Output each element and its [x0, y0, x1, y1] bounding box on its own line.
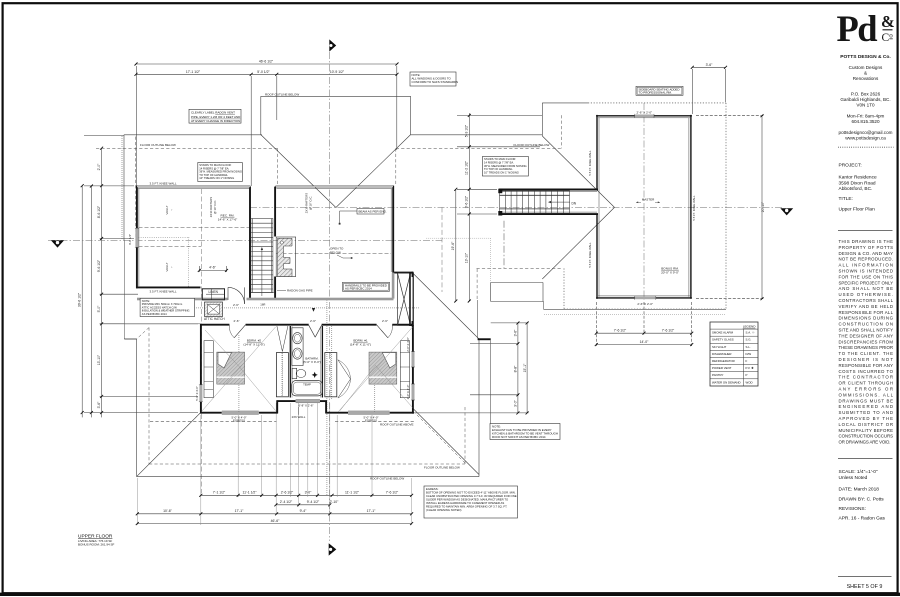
svg-text:D/W: D/W — [746, 352, 752, 356]
svg-text:(14'-8" X 11'-0"): (14'-8" X 11'-0") — [243, 343, 264, 347]
svg-text:S.G.: S.G. — [746, 338, 752, 342]
svg-text:EGRESS: EGRESS — [365, 419, 377, 423]
svg-text:3598 Dixon Road: 3598 Dixon Road — [839, 180, 876, 186]
bathroom door V — [309, 325, 316, 337]
svg-text:2'-0" X 4'-0": 2'-0" X 4'-0" — [406, 385, 410, 400]
svg-text:RESPONSIBLE FOR ALL: RESPONSIBLE FOR ALL — [839, 310, 894, 315]
svg-text:REFRIGERATOR: REFRIGERATOR — [712, 359, 735, 363]
pillow — [218, 353, 232, 368]
connector stair rails — [500, 194, 570, 196]
roof funnel valley diagonals — [261, 135, 336, 208]
hall south wall west extension — [125, 323, 201, 325]
svg-text:14'-6" X 17'-6": 14'-6" X 17'-6" — [218, 218, 238, 222]
svg-text:20'-10": 20'-10" — [761, 201, 765, 212]
bathtub — [292, 381, 323, 396]
svg-text:CONTRACTORS SHALL: CONTRACTORS SHALL — [839, 298, 894, 303]
dotted separator — [838, 146, 894, 148]
svg-text:DISHWASHER: DISHWASHER — [712, 352, 732, 356]
svg-text:3.5 FT. KNEE WALL: 3.5 FT. KNEE WALL — [150, 290, 177, 294]
bath bay east wall — [325, 401, 327, 414]
svg-text:SAFETY GLASS: SAFETY GLASS — [712, 338, 734, 342]
svg-text:THIS DRAWING IS THE: THIS DRAWING IS THE — [839, 239, 894, 244]
svg-text:CONSTRUCTION OCCURS: CONSTRUCTION OCCURS — [839, 434, 894, 439]
bifold doors — [277, 326, 283, 352]
svg-text:17'-1": 17'-1" — [367, 509, 376, 513]
svg-text:9'-6 1/2": 9'-6 1/2" — [97, 259, 101, 272]
wing vertical centerline — [643, 103, 645, 300]
bedroom2 left wall upper — [200, 324, 202, 385]
left dim ticks — [81, 147, 103, 414]
svg-text:16R: 16R — [260, 303, 265, 307]
hall door from rec room wall — [227, 287, 229, 300]
svg-text:Kantor Residence: Kantor Residence — [839, 175, 877, 181]
svg-text:WOD: WOD — [746, 380, 753, 384]
wall inner faces (thin parallel lines) — [138, 118, 690, 297]
svg-text:PANTRY: PANTRY — [712, 373, 724, 377]
svg-text:Abbotsford, BC.: Abbotsford, BC. — [839, 186, 873, 192]
DN arrow — [549, 201, 570, 203]
section marker bottom — [329, 543, 337, 555]
note box: beam as per eng — [339, 208, 387, 224]
attic hatch — [205, 302, 223, 317]
rec room bottom wall — [136, 286, 201, 288]
svg-text:SKYLIGHT: SKYLIGHT — [712, 345, 727, 349]
svg-text:DESIGNER IS NOT: DESIGNER IS NOT — [839, 357, 894, 362]
svg-text:5'-0" X 4'-0": 5'-0" X 4'-0" — [195, 386, 199, 401]
svg-text:5.5 FT. KNEE WALL: 5.5 FT. KNEE WALL — [692, 195, 696, 221]
wing valley diagonals — [542, 136, 614, 207]
bedroom1 south window — [348, 411, 390, 414]
svg-text:TEMP: TEMP — [303, 383, 311, 387]
bedroom1 closet — [325, 353, 351, 398]
svg-text:3'-6": 3'-6" — [97, 401, 101, 409]
wing north window — [635, 115, 654, 118]
rec room interior dim 4'-6" — [199, 269, 226, 271]
svg-text:FOR THE USE ON THIS: FOR THE USE ON THIS — [839, 274, 894, 279]
svg-text:FLOOR OUTLINE BELOW: FLOOR OUTLINE BELOW — [424, 466, 460, 470]
svg-text:10'-9 1/2": 10'-9 1/2" — [330, 70, 345, 74]
svg-text:20'-0" X 9'-0": 20'-0" X 9'-0" — [661, 271, 679, 275]
wing south window — [635, 297, 656, 300]
svg-text:3.5 FT. KNEE WALL: 3.5 FT. KNEE WALL — [150, 182, 177, 186]
svg-text:@ 16" O.C.: @ 16" O.C. — [309, 196, 313, 210]
svg-text:AND SHALL NOT BE: AND SHALL NOT BE — [839, 286, 894, 291]
top dim ticks — [135, 63, 399, 76]
roof outline below: top funnel — [261, 95, 411, 97]
wing bottom dim rows — [596, 332, 692, 334]
bath bottom wall west — [277, 400, 296, 402]
wing top dim 3'-6" — [692, 66, 725, 68]
vanity counter — [292, 328, 303, 366]
svg-text:ROOF OUTLINE ABOVE: ROOF OUTLINE ABOVE — [380, 423, 414, 427]
svg-text:←: ← — [170, 266, 174, 269]
connector roof outline dotted — [544, 314, 726, 316]
section line jog at garage — [503, 221, 505, 268]
svg-text:Custom Designs: Custom Designs — [849, 65, 883, 70]
svg-text:CONFORM TO NAFS STANDARDS: CONFORM TO NAFS STANDARDS — [412, 80, 459, 84]
bottom dim row A — [201, 494, 412, 496]
stairwell left wall — [249, 187, 251, 300]
left dim line inner — [101, 148, 103, 417]
svg-text:RADON GAS PIPE: RADON GAS PIPE — [287, 288, 313, 292]
bedroom1 east windows — [412, 352, 415, 367]
bedroom1 bottom wall east — [390, 412, 414, 414]
svg-text:SCALE: 1/4"=1'-0": SCALE: 1/4"=1'-0" — [839, 469, 878, 475]
svg-text:AS PER BCBC 2014: AS PER BCBC 2014 — [142, 312, 167, 316]
section line jog — [441, 207, 443, 292]
svg-text:ATTIC HATCH: ATTIC HATCH — [204, 317, 225, 321]
svg-text:SMOKE ALARM: SMOKE ALARM — [712, 331, 734, 335]
svg-text:14'-0": 14'-0" — [640, 340, 649, 344]
svg-text:8'-6 1/2": 8'-6 1/2" — [97, 205, 101, 218]
svg-text:PROPERTY OF POTTS: PROPERTY OF POTTS — [839, 245, 894, 250]
svg-text:VAULT: VAULT — [165, 205, 169, 214]
svg-text:TO THE CLIENT. THE: TO THE CLIENT. THE — [839, 351, 894, 356]
svg-text:USED OTHERWISE.: USED OTHERWISE. — [839, 292, 894, 297]
svg-text:3'-6 1/2": 3'-6 1/2" — [465, 195, 469, 208]
jog wall to window bay — [393, 272, 413, 274]
wing right dim 20'-10" — [761, 116, 763, 299]
bottom dim row D overall 46'-6" — [137, 523, 411, 525]
svg-text:ROOF OUTLINE BELOW: ROOF OUTLINE BELOW — [370, 477, 404, 481]
svg-text:pottsdesignco@gmail.com: pottsdesignco@gmail.com — [839, 130, 893, 135]
svg-text:11'-1 1/2": 11'-1 1/2" — [242, 491, 257, 495]
note box: windows/doors NAFS — [410, 72, 458, 86]
roof outline below: top edge — [124, 134, 262, 136]
bottom dim row B — [276, 504, 330, 506]
svg-text:WATER ON DEMAND: WATER ON DEMAND — [712, 380, 741, 384]
svg-text:Upper Floor Plan: Upper Floor Plan — [839, 207, 876, 213]
svg-text:CONSTRUCTION ON: CONSTRUCTION ON — [839, 322, 894, 327]
sheet bottom thick border — [0, 593, 900, 596]
svg-text:P: P — [746, 373, 748, 377]
svg-text:DRAWINGS MUST BE: DRAWINGS MUST BE — [839, 398, 894, 403]
svg-text:LEGEND: LEGEND — [743, 324, 756, 328]
connector roof edge horizontal — [544, 308, 727, 310]
svg-text:TO PROFESSIONAL RM.: TO PROFESSIONAL RM. — [639, 91, 672, 95]
right-of-house dim stack — [517, 323, 519, 413]
right room top wall — [276, 186, 395, 188]
rec room door + arc — [228, 287, 245, 304]
bedroom2 west window — [199, 385, 202, 402]
svg-text:TITLE:: TITLE: — [839, 196, 853, 202]
svg-text:5'-3 1/2": 5'-3 1/2" — [465, 124, 469, 137]
pillow — [382, 353, 396, 368]
hall south wall segments (bedroom top wall) — [201, 324, 230, 326]
garage wall stub — [478, 338, 491, 340]
bedroom1 right wall segments — [412, 325, 414, 352]
rec room top wall — [136, 186, 250, 188]
svg-text:COSTS INCURRED TO: COSTS INCURRED TO — [839, 369, 894, 374]
svg-text:2'-6": 2'-6" — [382, 319, 388, 323]
svg-text:SHOWN IS INTENDED: SHOWN IS INTENDED — [839, 269, 894, 274]
section marker top — [329, 39, 336, 51]
svg-text:OR CLIENT THROUGH: OR CLIENT THROUGH — [839, 381, 894, 386]
garage wall below west — [477, 300, 479, 338]
rec room west window — [135, 228, 138, 247]
roof outline below: bottom edge — [137, 476, 479, 478]
svg-text:LOCAL DISTRICT OR: LOCAL DISTRICT OR — [839, 422, 894, 427]
note box: egress — [424, 486, 518, 518]
rec room left wall lower — [136, 247, 138, 288]
svg-text:11'-2 1/2": 11'-2 1/2" — [465, 160, 469, 175]
svg-text:S.A. ☉: S.A. ☉ — [746, 331, 755, 335]
svg-text:6'-8" X 2'-6": 6'-8" X 2'-6" — [298, 403, 313, 407]
radon pipe dotted runs — [122, 136, 420, 495]
svg-text:SITE AND SHALL NOTIFY: SITE AND SHALL NOTIFY — [839, 328, 894, 333]
wing walls — [596, 115, 692, 299]
svg-text:17'-1": 17'-1" — [235, 509, 244, 513]
svg-text:15'-1": 15'-1" — [523, 363, 527, 372]
svg-text:F: F — [746, 359, 748, 363]
svg-text:5.5 FT. KNEE WALL: 5.5 FT. KNEE WALL — [588, 150, 592, 176]
sheet number separator — [838, 575, 892, 577]
svg-text:PROJECT:: PROJECT: — [839, 163, 862, 169]
open-to-below guard knee wall (grey) — [137, 298, 228, 301]
svg-text:604.815.3520: 604.815.3520 — [851, 119, 880, 124]
svg-text:APPROVED BY THE: APPROVED BY THE — [839, 416, 894, 421]
svg-text:P.V. ✚: P.V. ✚ — [746, 366, 755, 370]
svg-text:THESE DRAWINGS PRIOR: THESE DRAWINGS PRIOR — [839, 345, 894, 350]
bedroom2 bottom wall east — [259, 412, 278, 414]
horizontal section line right — [250, 206, 782, 208]
svg-text:13'-10": 13'-10" — [97, 354, 101, 365]
roof outline below: left edge upper — [123, 135, 125, 241]
svg-text:www.pottsdesign.ca: www.pottsdesign.ca — [845, 135, 886, 140]
svg-text:APR. 16 - Radon Gas: APR. 16 - Radon Gas — [839, 515, 886, 521]
svg-text:RESPONSIBLE FOR ANY: RESPONSIBLE FOR ANY — [839, 363, 894, 368]
svg-text:P.O. Box 2626: P.O. Box 2626 — [851, 92, 881, 97]
svg-text:LINEN: LINEN — [209, 290, 219, 294]
svg-text:ROOF NOT SOFFIT AS PER BCBC 20: ROOF NOT SOFFIT AS PER BCBC 2014 — [492, 435, 546, 439]
window sill lines — [135, 114, 656, 415]
window bay right wall bottom stub — [412, 321, 414, 327]
svg-text:2'-6" X 2'-0": 2'-6" X 2'-0" — [637, 302, 653, 306]
svg-text:5'-0": 5'-0" — [97, 305, 101, 313]
bedroom2 left wall lower — [200, 402, 202, 414]
note box: handrails — [343, 282, 390, 291]
svg-text:7'-6 1/2": 7'-6 1/2" — [662, 329, 675, 333]
svg-text:@ 16" O.C.: @ 16" O.C. — [213, 200, 217, 214]
svg-text:&: & — [864, 71, 867, 76]
guard wall at right room edge — [392, 273, 395, 299]
svg-text:BONUS ROOM: 261.94 SF: BONUS ROOM: 261.94 SF — [78, 543, 115, 547]
svg-text:FLOOR OUTLINE BELOW: FLOOR OUTLINE BELOW — [514, 143, 550, 147]
svg-text:THE CONTRACTOR: THE CONTRACTOR — [839, 375, 894, 380]
svg-text:5.5 FT. KNEE WALL: 5.5 FT. KNEE WALL — [588, 242, 592, 268]
svg-text:10" TREADS ON 1" NOSING: 10" TREADS ON 1" NOSING — [484, 170, 519, 174]
svg-text:2X6 WALL: 2X6 WALL — [292, 415, 306, 419]
svg-text:8'-8": 8'-8" — [514, 365, 518, 373]
svg-text:DIMENSIONS DURING: DIMENSIONS DURING — [839, 316, 894, 321]
svg-text:10'-6": 10'-6" — [163, 509, 172, 513]
stair up arrow — [261, 248, 263, 296]
mattress — [217, 352, 245, 384]
svg-text:o: o — [889, 32, 893, 40]
svg-text:EGRESS: EGRESS — [233, 419, 245, 423]
mid vertical dim line (hall/wing column) — [468, 113, 470, 301]
svg-text:7'-6 1/2": 7'-6 1/2" — [614, 329, 627, 333]
garage wall below south — [490, 340, 492, 423]
bedroom1 door — [377, 325, 388, 338]
roof hip diagonal bottom-left — [137, 413, 201, 477]
stair bottom landing line — [251, 292, 274, 294]
svg-text:46'-6": 46'-6" — [271, 519, 280, 523]
svg-text:19'-6": 19'-6" — [451, 241, 455, 250]
svg-text:17'-1 1/2": 17'-1 1/2" — [186, 70, 201, 74]
note box: stairs to main floor (interior) — [198, 163, 243, 182]
floor outline below dashed: top — [96, 147, 278, 149]
svg-text:ANY ERRORS OR: ANY ERRORS OR — [839, 387, 894, 392]
svg-text:POWER VENT: POWER VENT — [712, 366, 732, 370]
svg-text:→: → — [170, 209, 174, 212]
svg-text:2'-4 1/2": 2'-4 1/2" — [280, 500, 293, 504]
svg-text:S.L.: S.L. — [746, 345, 751, 349]
mattress — [369, 352, 397, 384]
svg-text:4'-6": 4'-6" — [209, 266, 217, 270]
bottom dim row C — [137, 513, 411, 515]
logo divider line — [883, 29, 893, 31]
svg-text:11'-1 1/2": 11'-1 1/2" — [345, 491, 360, 495]
section marker left — [51, 240, 64, 247]
bathroom side walls — [289, 326, 291, 398]
svg-text:3'-0": 3'-0" — [305, 491, 313, 495]
svg-text:2'-6": 2'-6" — [234, 319, 240, 323]
garage floor outline dashed — [476, 269, 478, 300]
toilet — [292, 368, 297, 378]
svg-text:2'-0" X 4'-0": 2'-0" X 4'-0" — [406, 337, 410, 352]
svg-text:BEAM AS PER ENG.: BEAM AS PER ENG. — [359, 209, 388, 213]
svg-text:MASTER: MASTER — [642, 198, 655, 202]
bedroom2 closet — [276, 326, 288, 397]
connector stair newel posts — [498, 189, 502, 194]
svg-text:V0N 1T0: V0N 1T0 — [856, 103, 875, 108]
svg-text:REVISIONS:: REVISIONS: — [839, 506, 866, 512]
note box: radon vent pipe — [189, 109, 241, 123]
connector hall south wall — [499, 213, 598, 215]
window bay right wall top stub — [412, 272, 414, 277]
svg-text:(14'-8" X 11'-0"): (14'-8" X 11'-0") — [350, 343, 371, 347]
top tier2 dim line — [136, 73, 397, 75]
svg-text:NOT BE REPRODUCED.: NOT BE REPRODUCED. — [839, 257, 894, 262]
svg-text:2'-0": 2'-0" — [97, 163, 101, 171]
svg-text:DRAWN BY: C. Potts: DRAWN BY: C. Potts — [839, 497, 885, 503]
wing roof outline: top — [542, 102, 588, 104]
svg-text:2'-6 1/2": 2'-6 1/2" — [281, 491, 294, 495]
svg-text:13'-10": 13'-10" — [465, 252, 469, 263]
svg-text:OR DRAWINGS ARE VOID.: OR DRAWINGS ARE VOID. — [839, 440, 891, 445]
left dim line outer — [81, 186, 83, 418]
svg-text:FLOOR OUTLINE BELOW: FLOOR OUTLINE BELOW — [140, 143, 176, 147]
svg-text:Mon-Fri: 8am-4pm: Mon-Fri: 8am-4pm — [847, 114, 885, 119]
svg-text:DATE: March 2018: DATE: March 2018 — [839, 486, 880, 492]
roof hip diagonal bottom-right — [413, 409, 479, 475]
svg-text:C: C — [882, 32, 890, 44]
svg-text:ROOF OUTLINE BELOW: ROOF OUTLINE BELOW — [265, 92, 299, 96]
connector hall north wall — [499, 189, 598, 191]
floor outline step at left — [123, 240, 125, 339]
sink 2 — [293, 348, 302, 359]
floor outline below dashed: bottom — [148, 328, 150, 465]
svg-text:AS PER BCBC 2014: AS PER BCBC 2014 — [345, 287, 372, 291]
top wall grey core — [137, 186, 250, 187]
left dim extension lines — [84, 135, 124, 137]
separator line above disclaimer — [838, 229, 893, 231]
top dim extension lines — [136, 66, 138, 186]
right room right wall — [392, 186, 394, 273]
svg-text:AT EVERY CHANGE IN DIRECTION: AT EVERY CHANGE IN DIRECTION — [191, 119, 240, 123]
svg-text:3'-6": 3'-6" — [706, 63, 714, 67]
note box: sideboard seating — [636, 86, 683, 95]
svg-text:BELOW: BELOW — [330, 251, 341, 255]
svg-text:5'-0 1/2": 5'-0 1/2" — [257, 70, 270, 74]
bedroom2 vault diagonals — [202, 327, 276, 412]
svg-text:DISCREPANCIES FROM: DISCREPANCIES FROM — [839, 339, 894, 344]
svg-text:Pd: Pd — [837, 8, 878, 49]
svg-text:SPECIFIC PROJECT ONLY: SPECIFIC PROJECT ONLY — [839, 280, 894, 285]
svg-text:9'-4": 9'-4" — [300, 509, 308, 513]
rec room ceiling break dashed lines — [139, 228, 392, 287]
svg-text:10" TREADS ON 1" NOSING: 10" TREADS ON 1" NOSING — [199, 176, 234, 180]
sink 1 — [293, 333, 302, 344]
horizontal section line left — [48, 239, 442, 241]
power vent star — [312, 372, 318, 378]
separator line below disclaimer — [838, 457, 893, 459]
vertical section line through main house — [329, 52, 331, 541]
rec room left wall upper — [136, 186, 138, 229]
roof outline below: left edge lower — [136, 339, 138, 477]
svg-text:DN: DN — [572, 202, 577, 206]
bedroom1 vault diagonals — [339, 327, 413, 412]
svg-text:2'-6": 2'-6" — [310, 319, 316, 323]
svg-text:ALL INFORMATION: ALL INFORMATION — [839, 263, 894, 268]
top overall dim line 46'-6 1/2" — [136, 63, 397, 65]
note box: attic access — [140, 298, 195, 316]
windows (grey fills in walls) — [135, 115, 655, 415]
radon pipe arrow symbol — [312, 308, 315, 312]
svg-text:(5'-0" X 9'-0"): (5'-0" X 9'-0") — [303, 360, 321, 364]
svg-text:POTTS DESIGN & Co.: POTTS DESIGN & Co. — [840, 54, 891, 60]
svg-text:VAULT: VAULT — [165, 262, 169, 271]
svg-text:SUBMITTED TO AND: SUBMITTED TO AND — [839, 410, 894, 415]
dotted guides near window bay — [426, 238, 490, 282]
svg-text:DESIGN & CO. AND MAY: DESIGN & CO. AND MAY — [839, 251, 894, 256]
bath bottom wall east — [320, 400, 327, 402]
svg-text:3'-6 1/4": 3'-6 1/4" — [128, 234, 132, 245]
svg-text:7'-1 1/2": 7'-1 1/2" — [213, 491, 226, 495]
svg-text:2'-6" X 2'-0": 2'-6" X 2'-0" — [636, 110, 652, 114]
svg-text:THE DESIGNER OF ANY: THE DESIGNER OF ANY — [839, 333, 894, 338]
svg-text:2'-6": 2'-6" — [233, 303, 239, 307]
note box: stairs (connector) — [482, 157, 528, 177]
svg-text:&: & — [881, 12, 895, 31]
bedroom1 bottom wall west — [326, 412, 349, 414]
connector roof edge vertical — [543, 302, 545, 310]
stairwell right wall — [274, 187, 276, 237]
bedroom2 south window — [222, 411, 259, 414]
svg-text:9'-4 1/2": 9'-4 1/2" — [307, 500, 320, 504]
svg-text:3'-0": 3'-0" — [514, 399, 518, 407]
svg-text:MUNICIPALITY BEFORE: MUNICIPALITY BEFORE — [839, 428, 894, 433]
bath south window — [296, 400, 320, 403]
svg-text:VERIFY AND BE HELD: VERIFY AND BE HELD — [839, 304, 894, 309]
roof outline below: right edge lower — [478, 339, 480, 477]
bedroom2 bottom wall west — [201, 412, 222, 414]
bath bay west wall — [276, 401, 278, 414]
svg-text:Garibaldi Highlands, BC.: Garibaldi Highlands, BC. — [840, 97, 890, 102]
svg-text:3'-6": 3'-6" — [514, 329, 518, 337]
tall window bay with X (east side of main house) — [398, 273, 414, 325]
